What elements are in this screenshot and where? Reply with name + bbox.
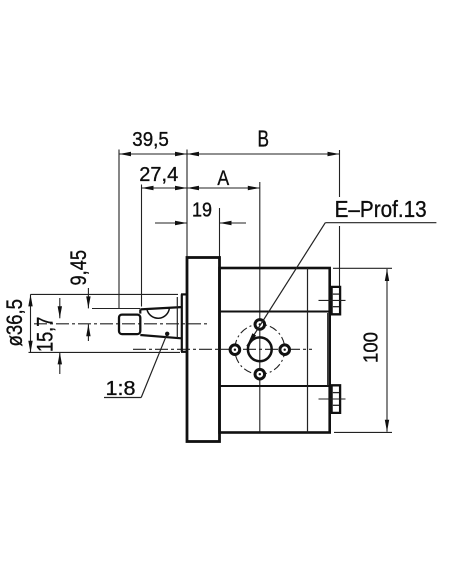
arrowheads dimension 15,7 xyxy=(58,306,62,364)
wire dimension line 15,7 xyxy=(59,298,61,374)
svg-text:27,4: 27,4 xyxy=(139,163,178,186)
arrowheads dimension 100 xyxy=(385,269,389,432)
node bolt circle center line horizontal xyxy=(133,348,312,350)
wire dimension line 9,45 xyxy=(88,288,140,341)
wire dimension line 100 xyxy=(333,268,392,432)
leader E-Prof.13 xyxy=(247,223,437,347)
bolt hole top xyxy=(255,320,265,330)
pump body xyxy=(220,268,330,433)
back face double line between ports xyxy=(327,313,329,386)
wire dimension line 19 stubs xyxy=(155,222,246,224)
keyway arc xyxy=(147,308,170,318)
wire extension lines vertical top xyxy=(119,150,340,433)
svg-text:100: 100 xyxy=(360,332,383,363)
bolt hole bottom xyxy=(255,369,265,379)
port fitting top xyxy=(330,287,340,314)
leader dot 1:8 xyxy=(165,332,169,336)
shaft taper xyxy=(140,307,181,338)
arrowheads dimension 27,4 xyxy=(142,186,188,190)
svg-text:15,7: 15,7 xyxy=(33,317,58,352)
node shaft center line xyxy=(34,323,207,325)
svg-text:A: A xyxy=(217,166,229,190)
leader arrow E-Prof.13 xyxy=(247,333,256,346)
wire dimension line dia36,5 xyxy=(29,294,181,352)
svg-text:ø36,5: ø36,5 xyxy=(2,299,27,347)
svg-text:39,5: 39,5 xyxy=(132,128,169,151)
pilot spigot xyxy=(181,294,187,352)
body internal line upper xyxy=(220,310,330,312)
arrowheads dimension 19 xyxy=(175,221,232,225)
port fitting bottom xyxy=(330,385,340,413)
svg-text:B: B xyxy=(258,125,270,151)
svg-text:19: 19 xyxy=(192,199,212,222)
bolt hole left xyxy=(230,345,240,355)
wire dimension line 27,4 / A xyxy=(142,187,260,189)
bolt circle dash-dot xyxy=(235,324,285,374)
arrowheads dimension 9,45 xyxy=(86,296,90,336)
wire dimension line 39,5 / B xyxy=(119,153,340,155)
arrowheads dimension 39,5 xyxy=(119,152,187,156)
shaft taper big end face xyxy=(176,297,178,338)
shaft threaded stub xyxy=(119,315,140,335)
leader 1:8 xyxy=(104,334,167,397)
body internal line lower xyxy=(220,385,330,387)
bolt hole right xyxy=(280,345,290,355)
flange plate xyxy=(187,258,220,442)
body cover joint line xyxy=(307,268,309,433)
center circle (shaft bore) xyxy=(248,337,272,361)
svg-text:1:8: 1:8 xyxy=(106,377,136,400)
svg-text:E–Prof.13: E–Prof.13 xyxy=(335,196,427,222)
arrowheads dimension B xyxy=(187,152,340,156)
arrowheads dimension A xyxy=(187,186,260,190)
svg-text:9,45: 9,45 xyxy=(66,250,91,286)
arrowheads dimension dia36,5 xyxy=(28,294,32,352)
